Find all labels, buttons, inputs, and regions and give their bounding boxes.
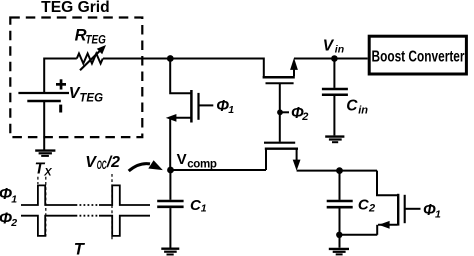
svg-text:1: 1 [201, 202, 207, 214]
svg-text:OC: OC [97, 158, 107, 172]
svg-text:in: in [358, 105, 368, 117]
svg-text:Φ: Φ [0, 186, 12, 203]
svg-text:2: 2 [10, 217, 17, 229]
svg-text:2: 2 [368, 203, 375, 215]
svg-text:2: 2 [301, 111, 308, 123]
svg-text:1: 1 [435, 208, 441, 220]
svg-text:Boost Converter: Boost Converter [372, 49, 465, 66]
svg-text:comp: comp [187, 159, 217, 171]
svg-text:TEG Grid: TEG Grid [41, 0, 110, 16]
svg-text:T: T [74, 241, 86, 256]
svg-text:V: V [323, 37, 335, 54]
svg-text:TEG: TEG [85, 32, 105, 46]
svg-text:TEG: TEG [79, 92, 103, 104]
svg-text:1: 1 [11, 193, 17, 205]
svg-text:/2: /2 [106, 154, 120, 171]
svg-text:in: in [335, 44, 344, 56]
svg-text:Φ: Φ [0, 210, 12, 227]
svg-text:V: V [85, 154, 97, 171]
svg-text:X: X [43, 167, 52, 179]
svg-text:C: C [346, 97, 358, 114]
svg-text:V: V [177, 151, 187, 168]
svg-text:1: 1 [228, 104, 234, 116]
